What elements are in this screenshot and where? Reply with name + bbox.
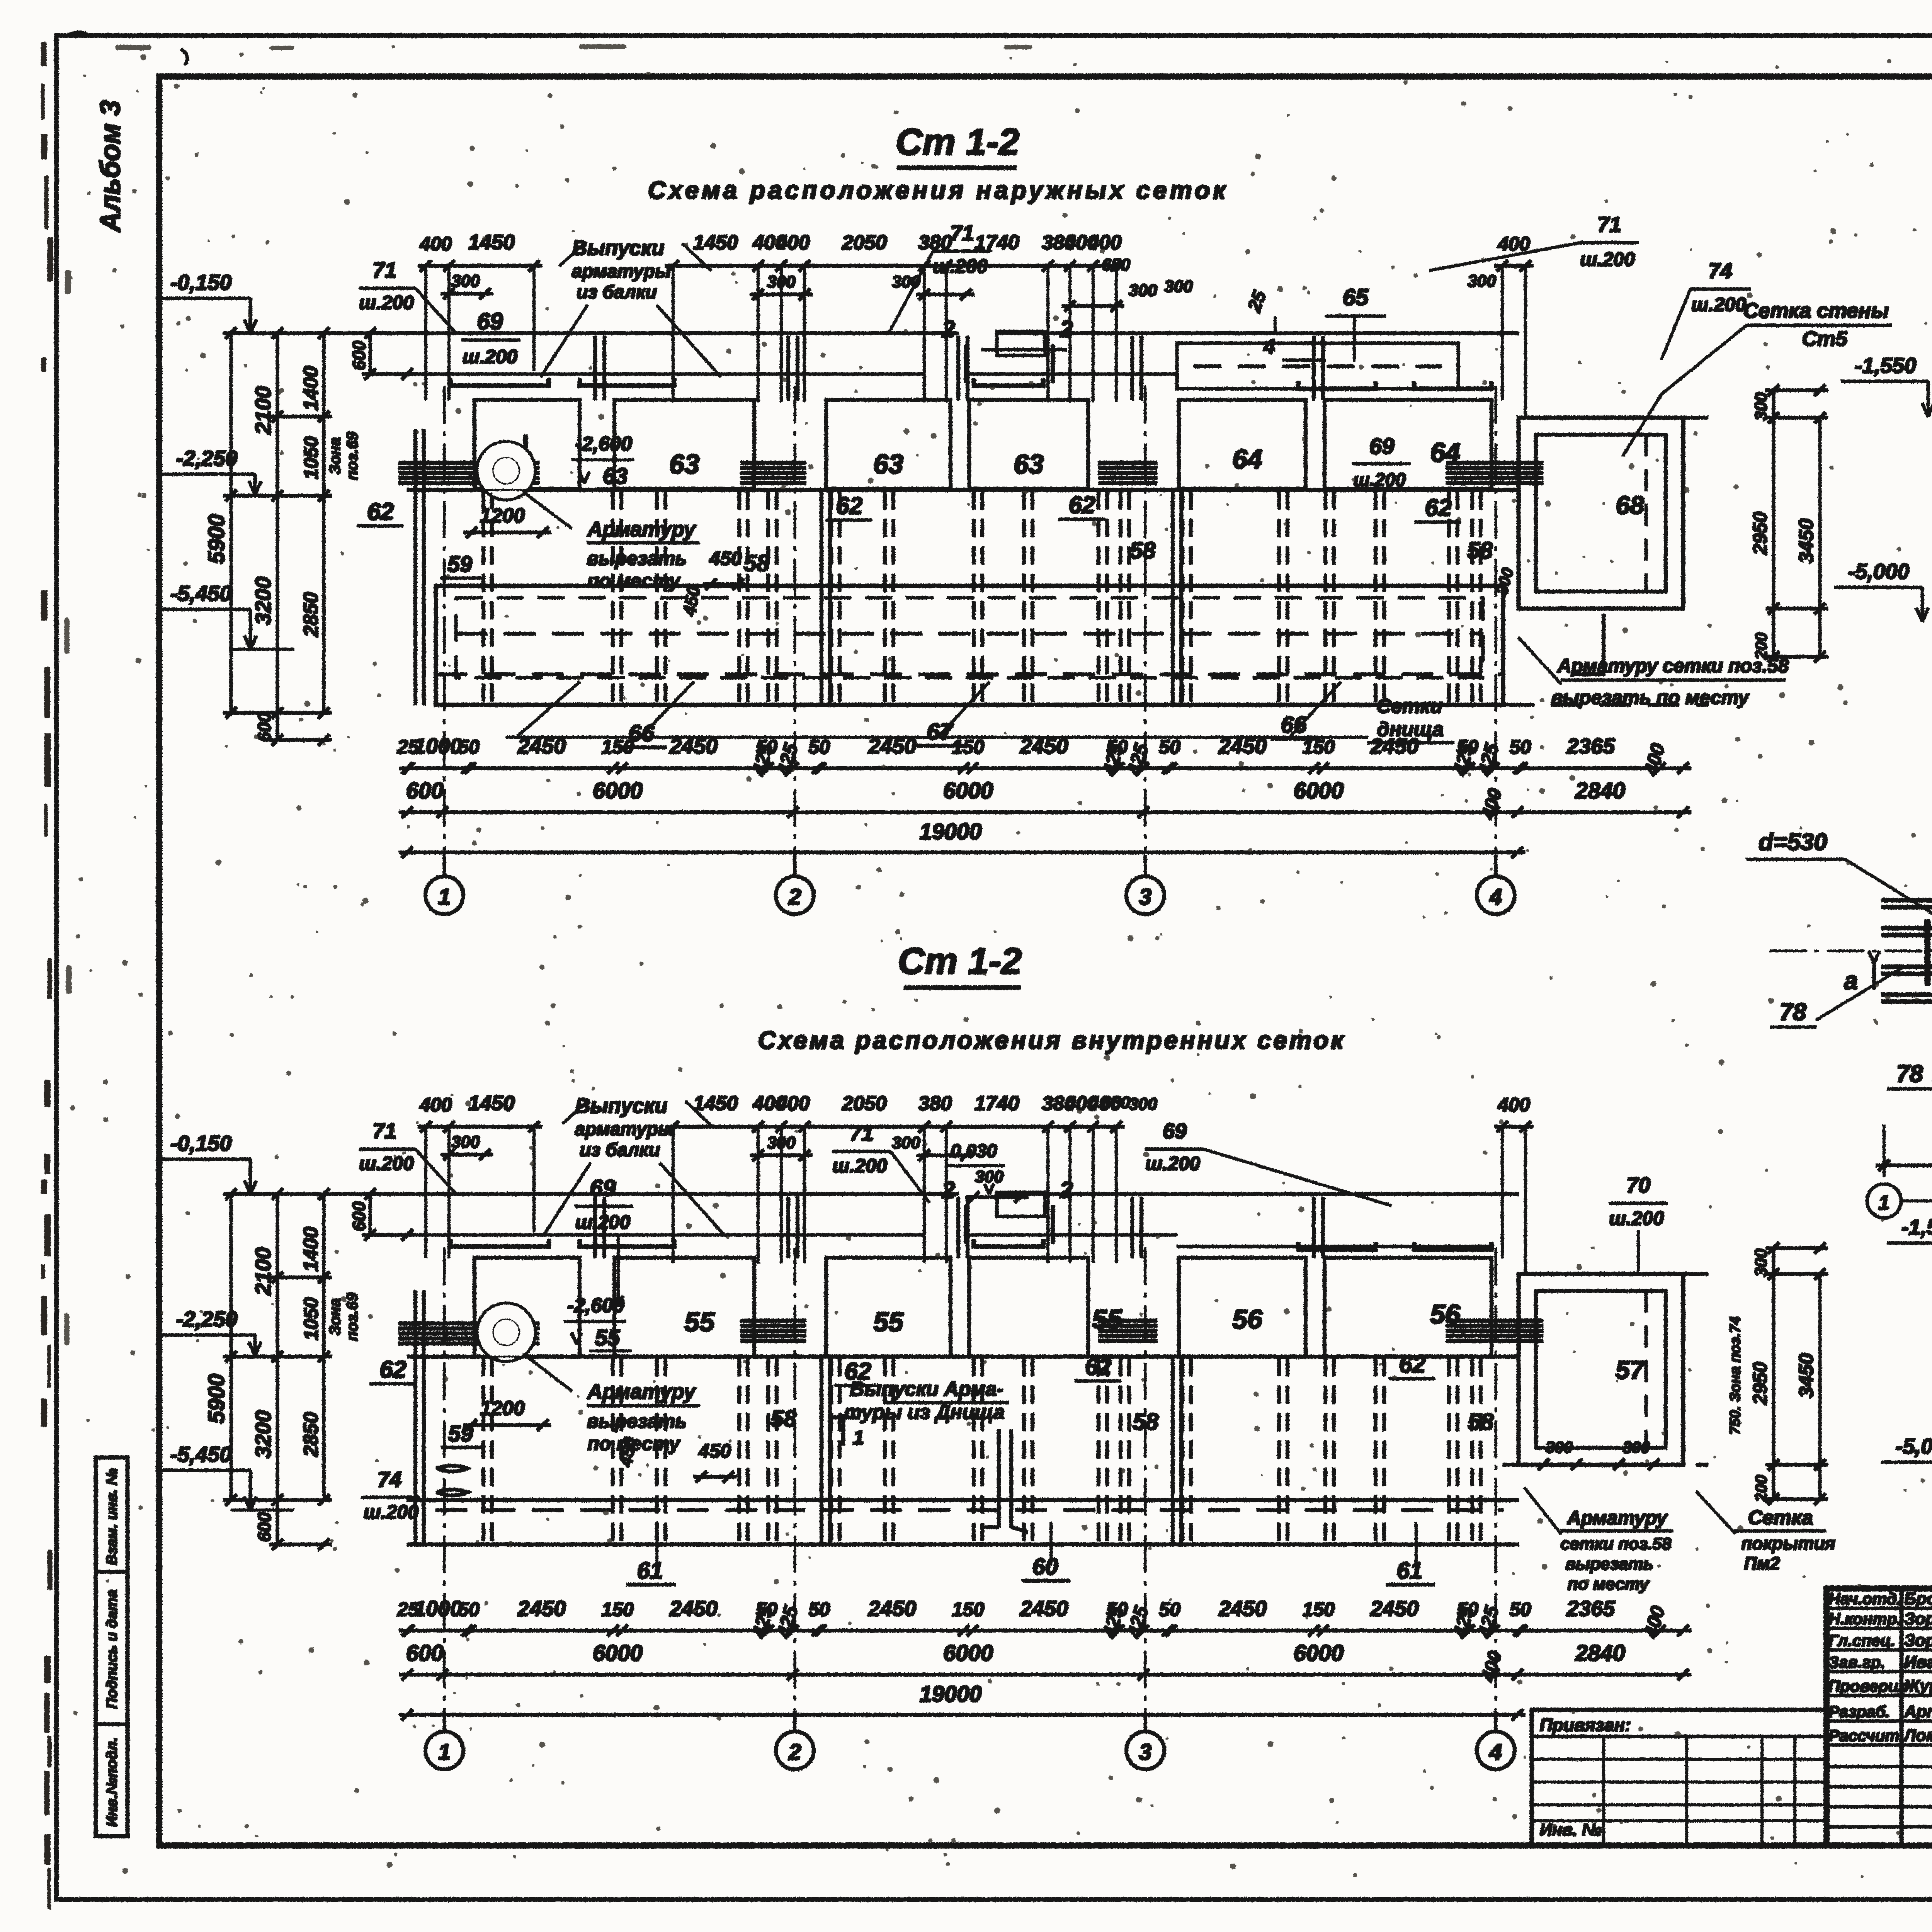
svg-text:2840: 2840 xyxy=(1575,778,1625,803)
left dim chain verticals (bottom) xyxy=(230,1194,232,1500)
svg-text:65: 65 xyxy=(1343,284,1369,310)
svg-text:3200: 3200 xyxy=(251,577,275,625)
svg-text:Зона: Зона xyxy=(327,1298,344,1336)
svg-text:50: 50 xyxy=(1510,736,1531,758)
svg-text:ш.200: ш.200 xyxy=(1580,248,1635,270)
svg-text:2850: 2850 xyxy=(300,1412,322,1457)
wall mid line (bottom) xyxy=(407,1355,1519,1358)
bottom schematic axes circles xyxy=(443,1711,446,1731)
svg-text:3450: 3450 xyxy=(1795,1353,1818,1398)
svg-text:6000: 6000 xyxy=(593,778,643,803)
scan artifacts left edge xyxy=(42,43,53,1909)
svg-text:50: 50 xyxy=(808,736,830,758)
svg-text:1450: 1450 xyxy=(693,231,738,254)
right mesh box 57 xyxy=(1519,1274,1683,1465)
svg-text:вырезать: вырезать xyxy=(587,548,687,569)
svg-text:300: 300 xyxy=(1468,272,1496,291)
svg-text:400: 400 xyxy=(1478,786,1506,822)
left chain tick lines xyxy=(223,332,378,335)
base line (bottom) xyxy=(407,1543,1519,1546)
svg-text:2450: 2450 xyxy=(517,1596,566,1621)
svg-text:Пм2: Пм2 xyxy=(1744,1553,1780,1573)
svg-text:6000: 6000 xyxy=(943,778,993,803)
svg-text:300: 300 xyxy=(767,1133,796,1152)
bottom schematic: wall Ст1-2 inner meshes elevation xyxy=(156,1092,1932,1769)
svg-text:Нач.отд.: Нач.отд. xyxy=(1828,1590,1901,1608)
svg-text:2450: 2450 xyxy=(868,1596,917,1621)
top dim chain group middle xyxy=(665,265,1124,267)
horizontal bar groups (mesh laps) xyxy=(399,461,539,464)
svg-text:Арматуру: Арматуру xyxy=(587,518,697,541)
svg-text:-2,600: -2,600 xyxy=(567,1294,624,1317)
svg-text:-2,250: -2,250 xyxy=(176,446,238,470)
svg-text:61: 61 xyxy=(1397,1558,1423,1583)
svg-text:1050: 1050 xyxy=(300,1297,322,1340)
svg-text:по месту: по месту xyxy=(1568,1575,1650,1594)
svg-text:50: 50 xyxy=(458,736,480,758)
svg-text:63: 63 xyxy=(873,449,903,479)
svg-text:64: 64 xyxy=(1232,444,1262,474)
svg-text:из балки: из балки xyxy=(580,1140,660,1160)
upper mesh rectangles row (bottom) xyxy=(474,1258,580,1357)
sub dims 300 650 xyxy=(750,293,812,296)
svg-text:-5,450: -5,450 xyxy=(170,1442,232,1466)
svg-text:3: 3 xyxy=(1139,1740,1151,1765)
svg-text:1050: 1050 xyxy=(300,436,322,479)
svg-text:2365: 2365 xyxy=(1566,1596,1615,1621)
svg-text:63: 63 xyxy=(1014,449,1044,479)
svg-text:2840: 2840 xyxy=(1575,1641,1625,1666)
svg-text:вырезать по месту: вырезать по месту xyxy=(1551,687,1750,708)
svg-text:74: 74 xyxy=(1708,259,1732,283)
svg-text:2450: 2450 xyxy=(1218,1596,1267,1621)
connector bars between upper rects xyxy=(594,336,597,400)
svg-text:600: 600 xyxy=(406,1641,444,1666)
svg-text:400: 400 xyxy=(776,1092,810,1115)
wall top reference line (bottom) xyxy=(231,1193,958,1196)
band dividers xyxy=(820,586,823,705)
svg-text:-0,150: -0,150 xyxy=(170,270,232,294)
svg-text:300: 300 xyxy=(1752,1248,1770,1277)
svg-text:400: 400 xyxy=(1497,233,1530,255)
svg-text:Ст5: Ст5 xyxy=(1802,327,1847,350)
right side wall lines beyond axis4 xyxy=(1519,417,1708,419)
right vertical dims of top schematic xyxy=(1772,390,1775,657)
svg-text:1: 1 xyxy=(1879,1192,1890,1214)
svg-text:600: 600 xyxy=(349,1201,369,1231)
svg-text:2450: 2450 xyxy=(1370,734,1419,758)
svg-text:Арматуру: Арматуру xyxy=(1566,1507,1668,1529)
svg-text:69: 69 xyxy=(1369,434,1395,459)
svg-text:вырезать: вырезать xyxy=(587,1410,687,1432)
svg-text:2: 2 xyxy=(942,1177,955,1203)
svg-text:Зорин: Зорин xyxy=(1904,1609,1932,1628)
svg-text:Сетки: Сетки xyxy=(1377,695,1443,718)
svg-text:71: 71 xyxy=(372,1119,396,1143)
top dim chain group left: 400 1450 xyxy=(418,265,542,267)
svg-text:300: 300 xyxy=(451,1133,480,1151)
svg-text:Выпуски: Выпуски xyxy=(572,236,665,260)
title block outline xyxy=(1827,1588,1932,1845)
svg-text:400: 400 xyxy=(1497,1094,1530,1116)
staff table columns xyxy=(1900,1588,1903,1845)
svg-text:50: 50 xyxy=(808,1599,830,1620)
svg-text:Бродский: Бродский xyxy=(1904,1589,1932,1608)
svg-text:63: 63 xyxy=(603,464,628,489)
svg-text:450: 450 xyxy=(698,1440,731,1462)
band dashed horizontals xyxy=(456,633,1483,635)
svg-text:6000: 6000 xyxy=(1294,778,1344,803)
axis bubbles 1 2 (detail I) xyxy=(1867,1184,1901,1218)
svg-text:ш.200: ш.200 xyxy=(1353,470,1406,490)
svg-text:6000: 6000 xyxy=(1294,1641,1344,1666)
svg-text:55: 55 xyxy=(595,1325,620,1350)
svg-text:600: 600 xyxy=(349,340,369,370)
svg-text:туры из Днища: туры из Днища xyxy=(844,1401,1005,1423)
wall bottom line (bottom) xyxy=(407,1498,1519,1502)
svg-text:750. Зона поз.74: 750. Зона поз.74 xyxy=(1727,1316,1743,1434)
svg-text:600: 600 xyxy=(406,778,444,803)
staff table rows xyxy=(1827,1607,1932,1609)
upper mesh rectangles row xyxy=(474,400,580,489)
svg-text:300: 300 xyxy=(975,1167,1003,1186)
svg-text:150: 150 xyxy=(602,736,634,758)
svg-text:ш.200: ш.200 xyxy=(364,1501,418,1523)
linked-project table (Привязан) xyxy=(1532,1710,1827,1845)
box 68 anchor mark xyxy=(1575,614,1604,674)
svg-text:2: 2 xyxy=(788,884,801,910)
top schematic axes circles xyxy=(443,855,446,876)
svg-text:1400: 1400 xyxy=(300,366,322,411)
svg-text:Сетка стены: Сетка стены xyxy=(1743,299,1889,322)
svg-text:-1,550: -1,550 xyxy=(1901,1215,1932,1239)
pipe sleeve circle xyxy=(478,442,535,499)
vertical bars and dashed laps (bottom) xyxy=(414,1291,417,1544)
svg-text:1000: 1000 xyxy=(414,734,462,758)
svg-text:1450: 1450 xyxy=(693,1092,738,1115)
svg-text:62: 62 xyxy=(380,1356,406,1383)
svg-text:1200: 1200 xyxy=(480,505,525,527)
svg-text:1: 1 xyxy=(438,1740,451,1765)
band leader line xyxy=(506,736,1368,738)
sub dim 300 xyxy=(441,293,493,295)
top dims above bottom schematic - middle group xyxy=(665,1126,1124,1128)
top dim right: 400 xyxy=(1495,265,1533,267)
right vertical dims (bottom) xyxy=(1772,1248,1775,1499)
svg-text:Инв. №: Инв. № xyxy=(1540,1820,1602,1839)
svg-text:Сетка: Сетка xyxy=(1748,1507,1813,1529)
left filing strip with cells xyxy=(96,1458,128,1836)
svg-text:68: 68 xyxy=(1616,491,1644,519)
svg-text:Журавлёв: Журавлёв xyxy=(1903,1677,1932,1696)
svg-text:78: 78 xyxy=(1780,999,1806,1026)
svg-text:2050: 2050 xyxy=(842,1092,887,1115)
wall mid line xyxy=(407,488,1519,492)
svg-text:300: 300 xyxy=(1623,1438,1650,1456)
svg-text:Рассчит.: Рассчит. xyxy=(1828,1726,1904,1745)
svg-text:69: 69 xyxy=(1163,1119,1187,1143)
svg-text:66: 66 xyxy=(1281,712,1307,738)
svg-text:19000: 19000 xyxy=(919,1682,981,1707)
svg-text:-2,600: -2,600 xyxy=(575,433,632,455)
svg-text:Инв.№подл.: Инв.№подл. xyxy=(104,1737,120,1827)
svg-text:поз.69: поз.69 xyxy=(344,432,361,480)
svg-text:Взам. инв. №: Взам. инв. № xyxy=(104,1468,120,1565)
connector bars between upper rects (bottom) xyxy=(594,1197,597,1258)
svg-text:2365: 2365 xyxy=(1566,734,1615,758)
bar with foot detail xyxy=(998,1430,1000,1527)
svg-text:69: 69 xyxy=(477,308,503,334)
svg-text:71: 71 xyxy=(850,1121,874,1145)
svg-text:Зав.гр.: Зав.гр. xyxy=(1828,1653,1885,1671)
svg-text:3: 3 xyxy=(1139,884,1151,910)
svg-text:2: 2 xyxy=(1060,1177,1073,1203)
svg-text:61: 61 xyxy=(637,1558,663,1583)
svg-text:2950: 2950 xyxy=(1749,1362,1771,1405)
svg-text:5900: 5900 xyxy=(204,514,229,564)
svg-text:2: 2 xyxy=(1060,316,1073,342)
svg-text:55: 55 xyxy=(684,1307,715,1337)
axis centrelines (bottom) xyxy=(444,1248,445,1710)
svg-text:ш.200: ш.200 xyxy=(832,1155,887,1177)
svg-text:Схема расположения внутренних: Схема расположения внутренних сеток xyxy=(758,1026,1345,1054)
top dim rows under schematic xyxy=(400,767,1691,770)
title block xyxy=(1827,1588,1932,1845)
svg-text:2450: 2450 xyxy=(1020,734,1068,758)
svg-text:25: 25 xyxy=(1244,287,1270,315)
bottom mesh band inner dashed rect xyxy=(456,598,1483,678)
svg-text:I: I xyxy=(522,430,529,455)
dashed soffit (bottom) xyxy=(436,1509,1503,1512)
svg-text:2450: 2450 xyxy=(1370,1596,1419,1621)
svg-text:1450: 1450 xyxy=(468,1092,515,1115)
svg-text:19000: 19000 xyxy=(919,819,981,844)
plan horizontal bars xyxy=(1882,899,1932,902)
detail I pipe plan xyxy=(1770,846,1932,1218)
svg-text:-5,450: -5,450 xyxy=(170,581,232,605)
svg-text:арматуры: арматуры xyxy=(575,1119,674,1139)
svg-text:2450: 2450 xyxy=(669,734,718,758)
svg-text:450: 450 xyxy=(709,548,742,569)
svg-text:300: 300 xyxy=(892,1133,920,1152)
svg-text:2100: 2100 xyxy=(251,1247,275,1296)
svg-text:2850: 2850 xyxy=(300,592,322,637)
svg-text:78: 78 xyxy=(1896,1061,1923,1087)
svg-text:300: 300 xyxy=(1129,1095,1157,1114)
svg-text:по месту: по месту xyxy=(587,570,680,592)
svg-text:-1,550: -1,550 xyxy=(1855,353,1917,378)
leader to cut note (bottom) xyxy=(522,1352,572,1391)
svg-text:Н.контр.: Н.контр. xyxy=(1828,1610,1901,1628)
svg-text:Арматуру: Арматуру xyxy=(587,1380,697,1403)
svg-text:57: 57 xyxy=(1616,1355,1645,1384)
top dim right 400 (bottom) xyxy=(1495,1126,1533,1128)
svg-text:Зона: Зона xyxy=(327,437,344,475)
svg-text:Гл.спец.: Гл.спец. xyxy=(1828,1631,1895,1650)
svg-text:5900: 5900 xyxy=(204,1374,229,1423)
svg-text:300: 300 xyxy=(1164,277,1193,296)
pen mark top-left xyxy=(66,32,87,37)
svg-text:55: 55 xyxy=(873,1307,904,1337)
svg-text:63: 63 xyxy=(669,449,699,479)
svg-text:62: 62 xyxy=(367,498,394,525)
svg-text:67: 67 xyxy=(927,719,954,745)
svg-text:из балки: из балки xyxy=(577,282,657,303)
svg-text:ш.200: ш.200 xyxy=(1691,294,1746,315)
svg-text:59: 59 xyxy=(447,552,473,577)
svg-text:2: 2 xyxy=(788,1740,801,1765)
hooked anchor bars under beam xyxy=(451,379,549,386)
svg-text:Альбом 3: Альбом 3 xyxy=(95,100,126,233)
svg-text:4: 4 xyxy=(1489,884,1502,910)
bottom mesh band outer rect xyxy=(436,586,1503,705)
svg-text:50: 50 xyxy=(1159,736,1180,758)
svg-text:300: 300 xyxy=(1129,281,1157,300)
svg-text:1: 1 xyxy=(438,884,451,910)
svg-text:-2,250: -2,250 xyxy=(176,1307,238,1331)
svg-text:3450: 3450 xyxy=(1795,519,1818,563)
horizontal bar groups (bottom) xyxy=(399,1322,539,1325)
svg-text:1740: 1740 xyxy=(975,1092,1019,1115)
svg-text:2: 2 xyxy=(942,316,955,342)
axis centrelines through wall xyxy=(444,386,445,852)
svg-text:200: 200 xyxy=(1752,1475,1770,1502)
svg-text:150: 150 xyxy=(952,1599,985,1620)
top dims above bottom schematic - left group xyxy=(418,1126,542,1128)
svg-text:650: 650 xyxy=(1102,255,1130,274)
vertical bars and dashed laps in wall body xyxy=(414,430,417,705)
svg-text:Артёменко: Артёменко xyxy=(1904,1702,1932,1721)
svg-text:1450: 1450 xyxy=(468,231,515,254)
svg-text:600: 600 xyxy=(254,1512,274,1542)
svg-text:50: 50 xyxy=(1510,1599,1531,1620)
svg-text:ш.200: ш.200 xyxy=(463,346,517,367)
svg-text:56: 56 xyxy=(1232,1304,1263,1334)
svg-text:Ломазова: Ломазова xyxy=(1903,1726,1932,1745)
svg-text:400: 400 xyxy=(1478,1649,1506,1684)
hooked anchor bars (bottom) xyxy=(451,1240,549,1247)
svg-text:300: 300 xyxy=(767,272,796,291)
svg-text:Зорин: Зорин xyxy=(1904,1631,1932,1650)
svg-text:71: 71 xyxy=(372,258,396,282)
svg-text:400: 400 xyxy=(1639,1604,1669,1641)
svg-text:4: 4 xyxy=(1489,1740,1502,1765)
svg-text:сетки поз.58: сетки поз.58 xyxy=(1561,1534,1672,1553)
bottom dim rows under schematic xyxy=(400,1629,1691,1632)
svg-text:покрытия: покрытия xyxy=(1742,1533,1835,1553)
svg-text:74: 74 xyxy=(378,1467,401,1492)
svg-text:450: 450 xyxy=(679,585,704,618)
svg-text:ш.200: ш.200 xyxy=(359,292,414,313)
svg-text:50: 50 xyxy=(458,1599,480,1620)
svg-text:60: 60 xyxy=(1032,1554,1058,1580)
svg-text:-0,150: -0,150 xyxy=(170,1131,232,1155)
pipe sleeve circle (bottom) xyxy=(478,1304,535,1361)
svg-text:6000: 6000 xyxy=(943,1641,993,1666)
top strip line xyxy=(56,34,1932,37)
svg-text:600: 600 xyxy=(254,712,274,742)
svg-text:d=530: d=530 xyxy=(1759,829,1827,855)
plan centrelines xyxy=(1770,950,1932,952)
svg-text:71: 71 xyxy=(1597,212,1621,236)
svg-text:400: 400 xyxy=(776,231,810,254)
svg-text:ш.200: ш.200 xyxy=(933,255,988,277)
left dim chain verticals xyxy=(230,333,232,713)
svg-text:70: 70 xyxy=(1626,1173,1650,1197)
beam soffit line (bottom) xyxy=(407,1234,923,1236)
beam soffit line xyxy=(407,373,923,375)
svg-text:300: 300 xyxy=(451,272,480,291)
bold stub bars xyxy=(1925,920,1930,985)
right mesh box 68 xyxy=(1519,418,1683,609)
svg-text:6000: 6000 xyxy=(593,1641,643,1666)
svg-text:1200: 1200 xyxy=(480,1397,525,1420)
svg-text:1400: 1400 xyxy=(300,1227,322,1272)
svg-text:150: 150 xyxy=(602,1599,634,1620)
svg-text:Ст 1-2: Ст 1-2 xyxy=(898,940,1022,982)
svg-text:71: 71 xyxy=(950,221,974,245)
svg-text:58: 58 xyxy=(1130,537,1156,563)
svg-text:0,030: 0,030 xyxy=(951,1141,997,1162)
svg-text:2050: 2050 xyxy=(842,231,887,254)
svg-text:69: 69 xyxy=(590,1175,616,1201)
top schematic: wall Ст1-2 outer meshes elevation xyxy=(156,212,1932,914)
svg-text:150: 150 xyxy=(1303,736,1335,758)
svg-text:400: 400 xyxy=(419,1094,452,1116)
svg-text:a: a xyxy=(1844,967,1858,995)
svg-text:400: 400 xyxy=(1088,231,1122,254)
svg-text:Подпись и дата: Подпись и дата xyxy=(104,1590,120,1709)
dashed mesh 65 region xyxy=(1177,343,1458,389)
svg-text:Привязан:: Привязан: xyxy=(1540,1715,1631,1735)
svg-text:ш.200: ш.200 xyxy=(359,1153,414,1174)
svg-text:ш.200: ш.200 xyxy=(1145,1153,1200,1174)
svg-text:Ст 1-2: Ст 1-2 xyxy=(896,121,1019,163)
svg-text:4: 4 xyxy=(1263,335,1275,358)
svg-text:-5,000: -5,000 xyxy=(1896,1434,1932,1458)
svg-text:Схема расположения наружных се: Схема расположения наружных сеток xyxy=(648,176,1229,204)
svg-text:Разраб.: Разраб. xyxy=(1828,1702,1890,1721)
svg-text:вырезать: вырезать xyxy=(1565,1554,1653,1573)
flag 1 marks xyxy=(842,1414,845,1445)
svg-text:150: 150 xyxy=(952,736,985,758)
svg-text:2950: 2950 xyxy=(1749,512,1771,555)
svg-text:58: 58 xyxy=(771,1406,797,1432)
svg-text:2450: 2450 xyxy=(868,734,917,758)
svg-text:Иванова: Иванова xyxy=(1904,1653,1932,1672)
right side lines beyond axis4 (bottom) xyxy=(1519,1273,1708,1276)
svg-text:62: 62 xyxy=(1069,492,1095,519)
svg-text:650: 650 xyxy=(1102,1093,1130,1112)
svg-text:2450: 2450 xyxy=(1218,734,1267,758)
wall top reference line xyxy=(231,332,958,335)
svg-text:ш.200: ш.200 xyxy=(1609,1207,1664,1229)
svg-text:62: 62 xyxy=(1399,1351,1426,1378)
svg-text:Выпуски: Выпуски xyxy=(575,1094,668,1117)
leader to cut note xyxy=(522,491,572,529)
svg-text:3200: 3200 xyxy=(251,1410,275,1459)
svg-text:2450: 2450 xyxy=(669,1596,718,1621)
svg-text:400: 400 xyxy=(419,233,452,255)
svg-text:-5,000: -5,000 xyxy=(1848,559,1910,583)
svg-text:1000: 1000 xyxy=(414,1596,462,1621)
svg-text:2450: 2450 xyxy=(1020,1596,1068,1621)
svg-text:2100: 2100 xyxy=(251,386,275,435)
svg-text:ш.200: ш.200 xyxy=(575,1211,630,1233)
svg-text:Проверил: Проверил xyxy=(1828,1677,1908,1695)
svg-text:300: 300 xyxy=(1546,1438,1573,1456)
svg-text:2450: 2450 xyxy=(517,734,566,758)
